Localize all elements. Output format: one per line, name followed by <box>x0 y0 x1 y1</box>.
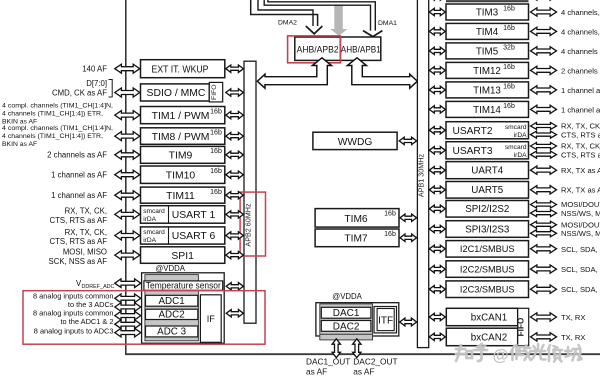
arrow TIM10 to APB2 bus <box>226 171 244 178</box>
peripheral TIM3 <box>446 4 529 20</box>
svg-text:16b: 16b <box>384 231 396 238</box>
arrow APB1 bus to UART5 <box>429 186 445 193</box>
arrow USART2 pins b <box>531 131 557 138</box>
svg-text:16b: 16b <box>503 25 515 32</box>
svg-text:irDA: irDA <box>514 132 527 139</box>
svg-text:SCK, NSS as AF: SCK, NSS as AF <box>49 257 108 266</box>
svg-text:TIM5: TIM5 <box>476 47 499 58</box>
arrow APB1 bus to SPI3/I2S3 <box>429 225 445 232</box>
arrow AF pins to USART 1 <box>115 210 140 219</box>
arrowhead DMA2 <box>306 26 323 34</box>
peripheral TIM11 <box>141 187 225 203</box>
cropped arrow remnant right <box>531 0 557 1</box>
arrow APB1 bus to UART4 <box>429 167 445 174</box>
arrowhead DMA1 <box>363 31 382 37</box>
svg-text:TIM14: TIM14 <box>473 105 501 116</box>
svg-text:CTS, RTS as AF: CTS, RTS as AF <box>50 237 108 246</box>
svg-text:Temperature sensor: Temperature sensor <box>146 281 221 291</box>
peripheral USART2 <box>446 122 529 139</box>
arrow SPI3/I2S3 pins a <box>531 221 557 228</box>
svg-text:4 compl. channels (TIM1_CH[1:4: 4 compl. channels (TIM1_CH[1:4]N, <box>2 102 113 109</box>
peripheral I2C1/SMBUS <box>446 241 529 258</box>
svg-text:IF: IF <box>207 314 216 324</box>
svg-text:TIM11: TIM11 <box>166 191 195 202</box>
arrow USART3 pins a <box>531 143 557 150</box>
arrow TIM4 pins <box>531 27 557 35</box>
svg-text:32b: 32b <box>503 45 515 52</box>
svg-text:BKIN as AF: BKIN as AF <box>2 141 37 148</box>
svg-text:@VDDA: @VDDA <box>332 292 362 301</box>
svg-text:D[7:0]: D[7:0] <box>86 79 107 88</box>
svg-text:irDA: irDA <box>143 216 156 223</box>
svg-text:1 channel as AF: 1 channel as AF <box>561 86 600 95</box>
svg-text:irDA: irDA <box>143 237 156 244</box>
arrow APB1 bus to USART2 <box>429 127 445 134</box>
peripheral TIM5 <box>446 43 529 59</box>
svg-text:16b: 16b <box>503 64 515 71</box>
red highlight around analog inputs <box>23 291 265 345</box>
arrow APB1 bus to bxCAN1 <box>429 313 445 320</box>
svg-text:DAC1: DAC1 <box>333 308 360 319</box>
svg-text:ITF: ITF <box>378 315 393 326</box>
arrow APB1 bus to I2C3/SMBUS <box>429 286 445 293</box>
arrow USART2 pins a <box>531 123 557 130</box>
arrow DAC2_OUT <box>353 339 361 358</box>
svg-text:MOSI/DOUT, MISO/DIN, SCK/CK,: MOSI/DOUT, MISO/DIN, SCK/CK, <box>561 200 600 209</box>
svg-text:TIM12: TIM12 <box>473 66 501 77</box>
arrow TIM14 pins <box>531 105 557 113</box>
peripheral TIM9 <box>141 146 225 163</box>
arrow TIM12 pins <box>531 66 557 74</box>
svg-text:SPI3/I2S3: SPI3/I2S3 <box>465 224 510 235</box>
arrow TIM6 to APB1 bus <box>400 214 417 221</box>
arrow AF pins to TIM8 / PWM <box>115 132 140 141</box>
svg-text:DMA1: DMA1 <box>378 20 397 27</box>
svg-text:DAC2: DAC2 <box>333 321 360 332</box>
svg-text:4 channels, ETR as AF: 4 channels, ETR as AF <box>561 8 600 17</box>
cropped arrow remnant left <box>429 0 445 1</box>
svg-text:CMD, CK as AF: CMD, CK as AF <box>52 89 107 98</box>
arrow temp sensor to APB2 bus <box>226 283 243 290</box>
gray DAC sub-panel <box>320 304 373 340</box>
svg-text:EXT IT. WKUP: EXT IT. WKUP <box>152 64 209 75</box>
bent arrow AHB/APB2 to APB2 bus <box>257 58 331 88</box>
svg-text:bxCAN2: bxCAN2 <box>471 333 507 344</box>
peripheral bxCAN1 <box>446 308 517 325</box>
svg-text:ADC 3: ADC 3 <box>157 327 186 338</box>
peripheral TIM4 <box>446 23 529 39</box>
converter DAC2 <box>321 321 371 332</box>
svg-text:smcard: smcard <box>505 144 527 151</box>
svg-text:TIM10: TIM10 <box>166 170 196 181</box>
arrow DAC1_OUT <box>332 339 340 358</box>
svg-text:TIM4: TIM4 <box>476 27 499 38</box>
svg-text:FIFO: FIFO <box>516 317 525 336</box>
svg-text:8 analog inputs to ADC3: 8 analog inputs to ADC3 <box>34 326 114 335</box>
arrow TIM5 pins <box>531 47 557 55</box>
watchdog WWDG <box>313 132 397 149</box>
svg-text:16b: 16b <box>503 6 515 13</box>
peripheral TIM10 <box>141 166 225 183</box>
converter ADC1 <box>146 295 198 306</box>
converter ADC 3 <box>146 326 198 337</box>
svg-text:DAC2_OUT: DAC2_OUT <box>353 356 397 366</box>
svg-text:USART 6: USART 6 <box>172 231 216 242</box>
svg-text:1 channel as AF: 1 channel as AF <box>51 191 107 200</box>
svg-text:USART 1: USART 1 <box>172 210 216 221</box>
svg-text:UART5: UART5 <box>471 185 503 196</box>
svg-text:USART3: USART3 <box>452 146 492 157</box>
svg-text:RX, TX as AF: RX, TX as AF <box>561 166 600 175</box>
timer TIM7 <box>315 229 399 247</box>
arrow APB1 bus to TIM13 <box>429 86 445 93</box>
svg-text:4 channels (TIM1_CH[1:4]) ETR,: 4 channels (TIM1_CH[1:4]) ETR, <box>2 133 103 140</box>
peripheral I2C3/SMBUS <box>446 281 529 298</box>
svg-text:MOSI/DOUT, MISO/DIN, SCK/CK,: MOSI/DOUT, MISO/DIN, SCK/CK, <box>561 220 600 229</box>
gray ADC sub-panel <box>145 275 199 341</box>
svg-text:SDIO / MMC: SDIO / MMC <box>147 88 206 99</box>
svg-text:SCL, SDA, SMBA as AF: SCL, SDA, SMBA as AF <box>561 245 600 254</box>
arrow APB1 bus to TIM14 <box>429 106 445 113</box>
arrow AF pins to TIM10 <box>115 170 140 179</box>
peripheral I2C2/SMBUS <box>446 261 529 278</box>
svg-text:RX, TX, CK,: RX, TX, CK, <box>65 207 107 216</box>
peripheral TIM8 / PWM <box>141 128 225 145</box>
svg-text:1 channel as AF: 1 channel as AF <box>51 171 107 180</box>
svg-text:SCL, SDA, SMBA as AF: SCL, SDA, SMBA as AF <box>561 265 600 274</box>
svg-text:WWDG: WWDG <box>338 137 373 148</box>
bracket for SDIO label <box>109 80 113 98</box>
arrow UART4 pins <box>531 166 557 174</box>
arrow SPI2/I2S2 pins b <box>531 210 557 217</box>
arrow APB1 bus to I2C2/SMBUS <box>429 265 445 272</box>
svg-text:TIM1 / PWM: TIM1 / PWM <box>152 111 210 122</box>
wire bus-matrix feed to DMA2 (inner) <box>258 0 313 27</box>
arrow TIM13 pins <box>531 86 557 94</box>
svg-text:SPI1: SPI1 <box>171 251 194 262</box>
gray system-bus arrow <box>330 5 347 36</box>
arrow VDDREF to temp sensor <box>115 279 141 288</box>
svg-text:2 channels as AF: 2 channels as AF <box>561 66 600 75</box>
peripheral TIM13 <box>446 82 529 98</box>
arrow USART3 pins b <box>531 151 557 158</box>
peripheral USART 1 <box>141 206 225 224</box>
svg-text:DMA2: DMA2 <box>278 20 297 27</box>
arrow AF pins to SDIO / MMC <box>115 88 140 97</box>
svg-text:@VDDA: @VDDA <box>155 264 185 273</box>
arrow UART5 pins <box>531 186 557 194</box>
svg-text:AHB/APB2: AHB/APB2 <box>297 44 339 54</box>
svg-text:DDREF_ADC: DDREF_ADC <box>82 284 115 290</box>
peripheral UART5 <box>446 182 529 199</box>
arrow AF pins to TIM1 / PWM <box>115 111 140 120</box>
arrow APB1 bus to I2C1/SMBUS <box>429 245 445 252</box>
arrow analog input 3 <box>115 311 141 320</box>
svg-text:ADC1: ADC1 <box>159 296 185 307</box>
svg-text:I2C2/SMBUS: I2C2/SMBUS <box>460 264 515 274</box>
arrow SPI1 to APB2 bus <box>226 251 244 258</box>
timer TIM6 <box>315 209 399 228</box>
svg-text:4 channels, ETR as AF: 4 channels, ETR as AF <box>561 27 600 36</box>
peripheral bxCAN2 <box>446 328 517 346</box>
arrow I2C2/SMBUS pins <box>531 265 557 273</box>
svg-text:16b: 16b <box>210 189 222 196</box>
svg-text:TIM3: TIM3 <box>476 8 499 19</box>
svg-text:NSS/WS, MCK as AF: NSS/WS, MCK as AF <box>561 209 600 218</box>
arrow SPI3/I2S3 pins b <box>531 230 557 237</box>
arrow analog input 5 <box>115 328 141 337</box>
arrow APB1 bus to bxCAN2 <box>429 333 445 340</box>
DAC panel divider <box>320 333 373 335</box>
arrow USART 1 to APB2 bus <box>226 211 244 218</box>
arrow APB1 bus to TIM4 <box>429 28 445 35</box>
svg-text:4 channels: 4 channels <box>561 47 598 56</box>
svg-text:APB2 60MHz: APB2 60MHz <box>243 203 252 247</box>
arrow APB1 bus to SPI2/I2S2 <box>429 205 445 212</box>
svg-text:140 AF: 140 AF <box>82 64 107 73</box>
analog container box <box>142 273 225 343</box>
FIFO tag of bxCAN <box>518 308 529 345</box>
converter DAC1 <box>321 307 371 318</box>
svg-text:4 channels (TIM1_CH[1:4]) ETR,: 4 channels (TIM1_CH[1:4]) ETR, <box>2 110 103 117</box>
peripheral TIM12 <box>446 62 529 78</box>
wire GPIO port rail (left vertical) <box>125 0 127 354</box>
svg-text:TIM8 / PWM: TIM8 / PWM <box>152 132 210 143</box>
red highlight around AHB/APB2 <box>288 36 341 63</box>
interface ITF <box>377 309 394 331</box>
svg-text:to the ADC1 & 2: to the ADC1 & 2 <box>61 317 114 326</box>
svg-text:@: @ <box>493 347 509 365</box>
bus APB2 60MHz bar <box>244 61 256 323</box>
svg-text:16b: 16b <box>210 168 222 175</box>
svg-text:RX, TX as AF: RX, TX as AF <box>561 186 600 195</box>
arrow analog input 4 <box>115 320 141 329</box>
svg-text:2 channels as AF: 2 channels as AF <box>47 151 107 160</box>
svg-text:smcard: smcard <box>143 229 165 236</box>
svg-text:AHB/APB1: AHB/APB1 <box>341 44 381 54</box>
peripheral SPI3/I2S3 <box>446 221 529 238</box>
svg-text:NSS/WS, MCK as AF: NSS/WS, MCK as AF <box>561 229 600 238</box>
svg-text:TIM7: TIM7 <box>344 234 368 245</box>
svg-text:SPI2/I2S2: SPI2/I2S2 <box>465 204 509 215</box>
arrow I2C1/SMBUS pins <box>531 245 557 253</box>
svg-text:16b: 16b <box>210 130 222 137</box>
svg-text:16b: 16b <box>503 103 515 110</box>
arrow SPI2/I2S2 pins a <box>531 201 557 208</box>
svg-text:FIFO: FIFO <box>211 84 218 99</box>
interface IF (ADC) <box>200 295 221 343</box>
wire bus-matrix feed to DMA1 (inner) <box>264 0 370 32</box>
wire bus-matrix feed to DMA1 (outer) <box>268 0 375 32</box>
arrow TIM1 / PWM to APB2 bus <box>226 111 244 118</box>
svg-text:CTS, RTS as AF: CTS, RTS as AF <box>50 216 108 225</box>
peripheral EXT IT. WKUP <box>141 60 225 78</box>
bent arrow AHB/APB1 to APB1 bus <box>347 58 417 88</box>
arrow ADC IF to APB2 bus <box>226 310 243 317</box>
cropped box above TIM3 <box>446 0 529 2</box>
peripheral TIM1 / PWM <box>141 107 225 124</box>
arrow analog input 1 <box>115 294 141 303</box>
arrow APB1 bus to USART3 <box>429 147 445 154</box>
peripheral SDIO / MMC <box>141 84 210 101</box>
svg-text:USART2: USART2 <box>452 126 492 137</box>
svg-text:CTS, RTS as AF: CTS, RTS as AF <box>561 130 600 139</box>
DAC container box <box>316 303 399 336</box>
arrow TIM11 to APB2 bus <box>226 192 244 199</box>
sensor Temperature sensor <box>144 281 223 290</box>
arrow TIM9 to APB2 bus <box>226 151 244 158</box>
FIFO tag of SDIO <box>209 82 222 102</box>
peripheral USART3 <box>446 142 529 159</box>
arrow USART 6 to APB2 bus <box>226 232 244 239</box>
arrow APB1 bus to TIM5 <box>429 47 445 54</box>
arrow analog input 2 <box>115 303 141 312</box>
svg-text:TX, RX: TX, RX <box>561 313 585 322</box>
arrow AF pins to EXT IT. WKUP <box>115 64 140 73</box>
arrow AF pins to TIM11 <box>115 191 140 200</box>
peripheral UART4 <box>446 162 529 179</box>
svg-text:16b: 16b <box>210 148 222 155</box>
svg-text:SCL, SDA, SMBA as AF: SCL, SDA, SMBA as AF <box>561 285 600 294</box>
arrow SDIO / MMC to APB2 bus <box>226 89 244 96</box>
arrow bxCAN1 pins <box>531 313 557 321</box>
svg-text:TIM9: TIM9 <box>169 151 193 162</box>
arrow APB1 bus to TIM12 <box>429 67 445 74</box>
converter ADC2 <box>146 309 198 319</box>
arrow TIM3 pins <box>531 8 557 16</box>
wire bus-matrix feed to DMA2 (outer) <box>251 0 318 27</box>
svg-text:4 compl. channels (TIM1_CH[1:4: 4 compl. channels (TIM1_CH[1:4]N, <box>2 125 113 132</box>
svg-text:RX, TX, CK,: RX, TX, CK, <box>561 122 600 131</box>
svg-text:as AF: as AF <box>306 367 327 377</box>
svg-text:RX, TX, CK,: RX, TX, CK, <box>65 228 107 237</box>
arrow TIM8 / PWM to APB2 bus <box>226 132 244 139</box>
svg-text:ADC2: ADC2 <box>159 310 185 321</box>
red highlight around APB2 60MHz <box>240 192 265 256</box>
arrow WWDG to APB1 bus <box>399 137 416 144</box>
interface ITF frame <box>374 307 397 333</box>
peripheral USART 6 <box>141 227 225 244</box>
svg-text:irDA: irDA <box>514 152 527 159</box>
svg-text:bxCAN1: bxCAN1 <box>471 313 507 324</box>
svg-text:TX, RX: TX, RX <box>561 333 585 342</box>
peripheral SPI1 <box>141 247 225 263</box>
arrow bxCAN2 pins <box>531 333 557 341</box>
svg-text:I2C3/SMBUS: I2C3/SMBUS <box>460 285 515 295</box>
arrow DAC ITF to APB1 bus <box>400 318 417 326</box>
svg-text:TIM6: TIM6 <box>344 214 368 225</box>
arrow AF pins to TIM9 <box>115 150 140 159</box>
bridge AHB/APB2 <box>295 37 341 60</box>
arrow I2C3/SMBUS pins <box>531 285 557 293</box>
arrow AF pins to SPI1 <box>115 251 140 260</box>
wire bottom rail <box>125 353 600 355</box>
svg-text:16b: 16b <box>210 108 222 115</box>
svg-text:APB1 30MHz: APB1 30MHz <box>416 154 425 198</box>
svg-text:smcard: smcard <box>143 208 165 215</box>
svg-text:I2C1/SMBUS: I2C1/SMBUS <box>460 244 515 254</box>
watermark zhihu <box>456 344 487 361</box>
svg-text:MOSI, MISO: MOSI, MISO <box>63 248 107 257</box>
svg-text:as AF: as AF <box>353 367 374 377</box>
peripheral SPI2/I2S2 <box>446 201 529 218</box>
arrow TIM7 to APB1 bus <box>400 234 417 241</box>
svg-text:RX, TX, CK: RX, TX, CK <box>561 142 600 151</box>
svg-text:DAC1_OUT: DAC1_OUT <box>306 356 350 366</box>
svg-text:UART4: UART4 <box>471 165 503 176</box>
bridge AHB/APB1 <box>340 37 380 60</box>
svg-text:CTS, RTS as AF: CTS, RTS as AF <box>561 151 600 160</box>
svg-text:16b: 16b <box>384 210 396 217</box>
arrow EXT IT. WKUP to APB2 bus <box>226 65 244 72</box>
arrow APB1 bus to TIM3 <box>429 8 445 15</box>
bus APB1 30MHz bar <box>417 0 428 348</box>
svg-text:TIM13: TIM13 <box>473 86 501 97</box>
svg-text:smcard: smcard <box>505 124 527 131</box>
peripheral TIM14 <box>446 101 529 117</box>
arrow AF pins to USART 6 <box>115 231 140 240</box>
svg-text:16b: 16b <box>503 84 515 91</box>
svg-text:1 channel as AF: 1 channel as AF <box>561 105 600 114</box>
